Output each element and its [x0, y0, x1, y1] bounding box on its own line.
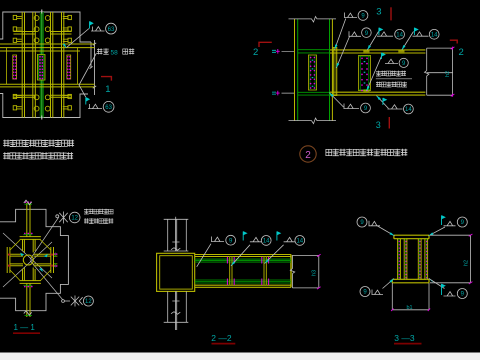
svg-text:2 —2: 2 —2	[211, 333, 232, 343]
svg-text:2: 2	[305, 150, 311, 161]
svg-text:h3: h3	[312, 270, 318, 276]
svg-text:1 — 1: 1 — 1	[14, 323, 36, 332]
svg-text:3 —3: 3 —3	[394, 333, 415, 343]
svg-text:2: 2	[459, 47, 464, 58]
svg-text:14: 14	[396, 33, 403, 39]
svg-text:63: 63	[105, 105, 112, 111]
svg-text:14: 14	[431, 33, 438, 39]
svg-text:2: 2	[253, 47, 258, 58]
svg-text:1: 1	[105, 84, 110, 95]
svg-text:12: 12	[71, 216, 78, 222]
svg-text:14: 14	[263, 239, 270, 245]
svg-text:14: 14	[296, 239, 303, 245]
svg-text:3: 3	[376, 7, 381, 18]
svg-text:3: 3	[376, 120, 381, 130]
svg-text:b1: b1	[407, 305, 413, 311]
svg-text:14: 14	[405, 107, 412, 113]
svg-text:63: 63	[108, 27, 115, 33]
svg-text:12: 12	[85, 299, 92, 305]
svg-text:58: 58	[111, 50, 119, 57]
svg-text:h2: h2	[445, 71, 451, 77]
svg-text:h2: h2	[464, 260, 470, 266]
